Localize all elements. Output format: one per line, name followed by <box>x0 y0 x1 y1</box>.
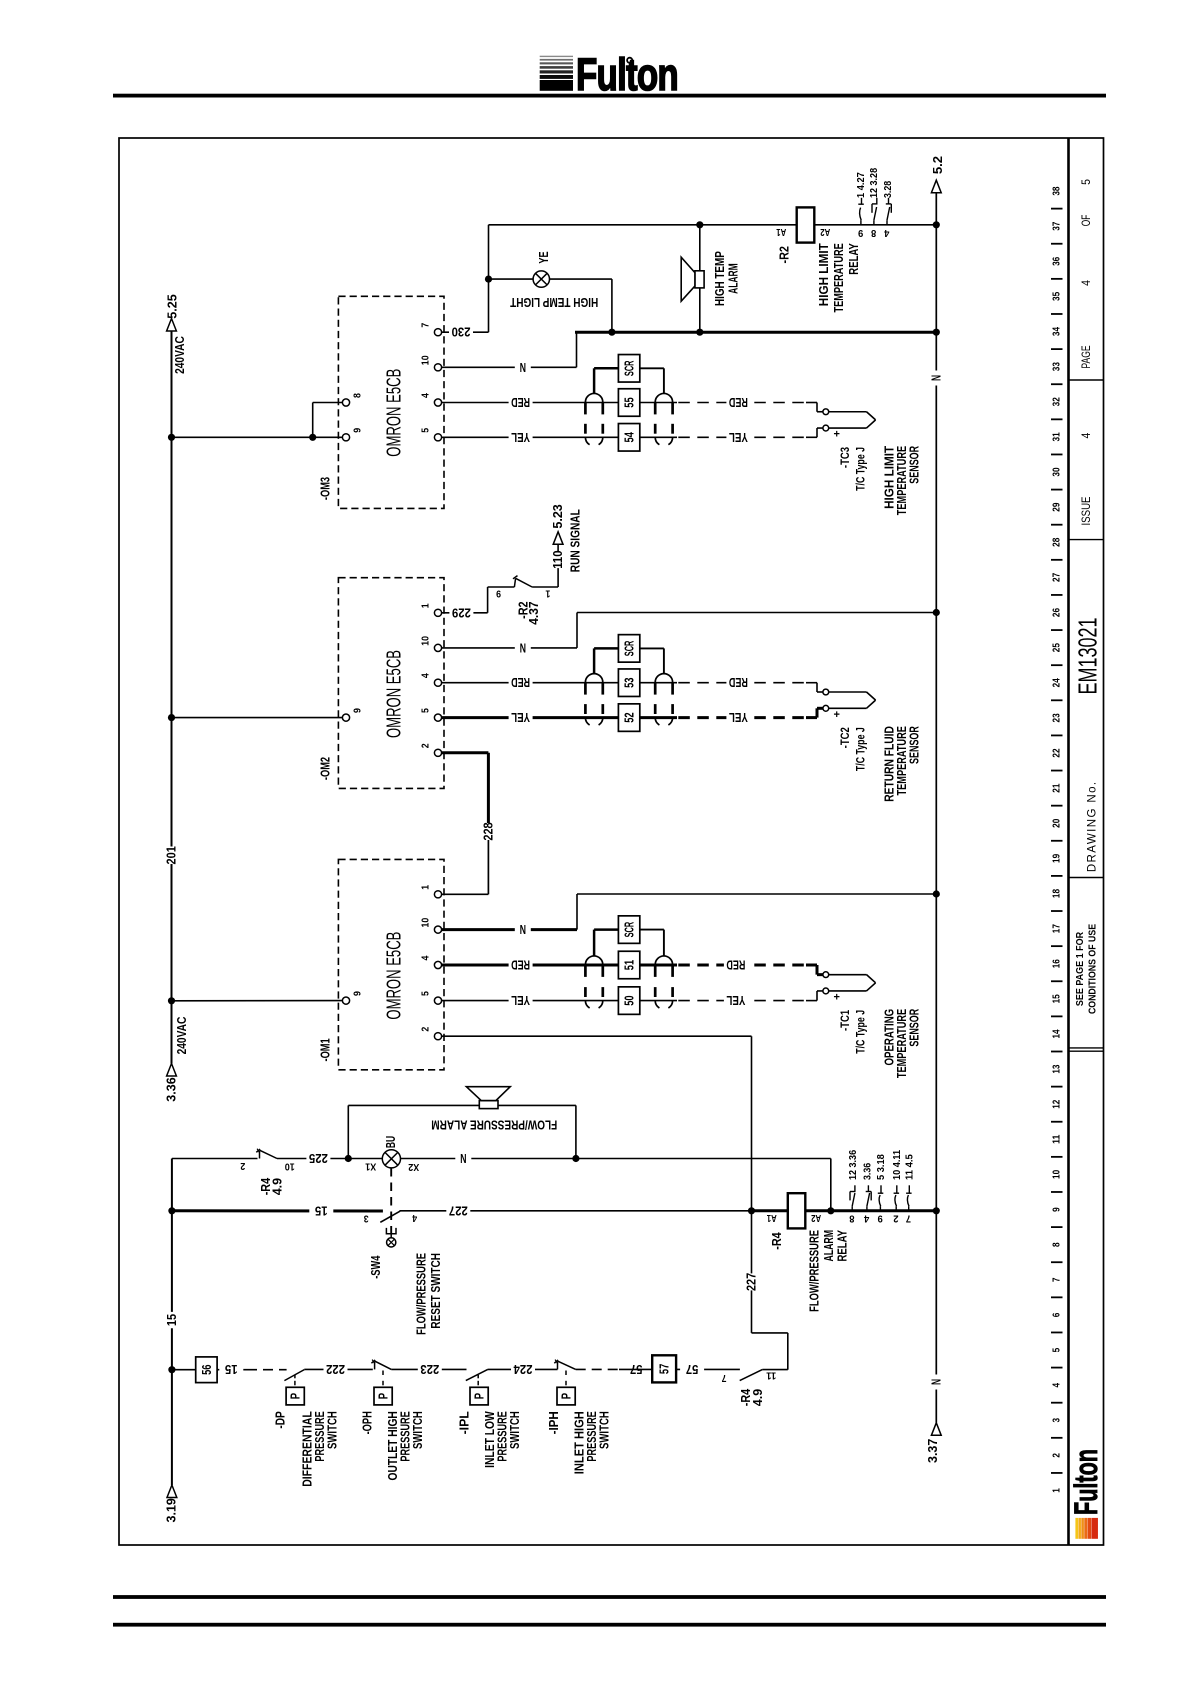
svg-text:OMRON E5CB: OMRON E5CB <box>384 369 406 457</box>
wire lamp to N run <box>550 279 612 332</box>
lamp BU flow alarm <box>348 1136 419 1172</box>
svg-text:YEL: YEL <box>511 993 530 1008</box>
svg-text:P: P <box>288 1393 303 1400</box>
svg-text:12 3.36: 12 3.36 <box>848 1150 859 1180</box>
svg-text:ISSUE: ISSUE <box>1079 497 1093 526</box>
svg-text:-TC1: -TC1 <box>840 1009 852 1031</box>
svg-text:X1: X1 <box>365 1160 376 1171</box>
svg-text:RED: RED <box>729 395 748 410</box>
svg-text:240VAC: 240VAC <box>172 336 187 374</box>
svg-text:EM13021: EM13021 <box>1073 618 1103 695</box>
run signal off-page arrow 110 5.23 <box>551 504 582 587</box>
svg-text:TEMPERATURE: TEMPERATURE <box>831 243 846 312</box>
svg-text:57: 57 <box>686 1362 699 1377</box>
inlet low pressure switch -IPL <box>457 1370 522 1468</box>
terminal 57 box <box>652 1355 676 1382</box>
wire OM2 pin10 N <box>442 609 940 656</box>
svg-text:SWITCH: SWITCH <box>507 1411 522 1449</box>
svg-text:1: 1 <box>421 603 432 608</box>
flow/pressure reset switch -SW4 <box>364 1168 443 1335</box>
svg-text:9: 9 <box>496 588 501 599</box>
right neutral bus N <box>929 180 943 1435</box>
OM3 cable screen left <box>585 393 602 444</box>
wire 227 down to chain <box>745 1211 788 1370</box>
svg-text:201: 201 <box>165 846 179 864</box>
svg-text:FLOW/PRESSURE ALARM: FLOW/PRESSURE ALARM <box>431 1117 557 1132</box>
svg-text:2: 2 <box>421 1027 432 1032</box>
wire 223 <box>391 1362 466 1377</box>
wire 228 OM2 pin2 to OM1 pin1 <box>442 753 496 895</box>
svg-text:4: 4 <box>421 673 432 678</box>
svg-text:SWITCH: SWITCH <box>596 1411 611 1449</box>
svg-text:8: 8 <box>871 227 877 238</box>
wire 224 <box>488 1362 558 1377</box>
svg-text:P: P <box>559 1393 574 1400</box>
flow pressure alarm sounder <box>431 1087 557 1133</box>
svg-text:18: 18 <box>1051 889 1062 898</box>
svg-text:Fulton: Fulton <box>1068 1449 1104 1515</box>
outlet high pressure switch -OPH <box>360 1360 425 1481</box>
svg-text:4.37: 4.37 <box>527 601 541 624</box>
svg-text:N: N <box>520 360 526 375</box>
off-page arrow 3.36 240VAC <box>164 1016 189 1101</box>
temperature controller -OM2 (OMRON E5CB) <box>319 578 444 789</box>
OM3 SCR screen terminal <box>594 355 664 394</box>
svg-text:37: 37 <box>1051 221 1062 230</box>
header rule <box>113 94 1106 98</box>
svg-text:3.28: 3.28 <box>883 180 894 198</box>
wire 222 <box>304 1362 373 1377</box>
temperature controller -OM1 (OMRON E5CB) <box>319 859 444 1069</box>
differential pressure switch -DP <box>273 1370 339 1487</box>
drawing frame border <box>119 138 1104 1545</box>
svg-text:12: 12 <box>1051 1099 1062 1108</box>
wire to relay contact -R4 2-10 <box>172 1158 258 1160</box>
svg-text:RED: RED <box>511 958 530 973</box>
svg-text:15: 15 <box>1051 994 1062 1003</box>
wire OM1 pin9 to bus <box>168 997 343 1004</box>
temperature controller -OM3 (OMRON E5CB) <box>319 296 444 508</box>
svg-text:5: 5 <box>1051 1348 1062 1353</box>
svg-text:RELAY: RELAY <box>835 1230 850 1262</box>
high temp alarm sounder <box>681 221 741 332</box>
svg-text:RUN SIGNAL: RUN SIGNAL <box>567 509 582 572</box>
wire 57 to contact <box>676 1362 740 1377</box>
thermocouple -TC3 connections <box>806 403 876 441</box>
svg-text:11 4.5: 11 4.5 <box>904 1154 915 1180</box>
svg-text:33: 33 <box>1051 362 1062 371</box>
svg-text:-IPH: -IPH <box>547 1411 561 1434</box>
title block PAGE cell <box>1079 179 1093 369</box>
svg-text:10: 10 <box>285 1161 295 1172</box>
wire 15 dashed to -DP <box>217 1362 287 1377</box>
svg-text:227: 227 <box>449 1203 468 1218</box>
OM2 terminal 52 <box>618 704 639 732</box>
svg-text:50: 50 <box>622 995 637 1005</box>
svg-text:RELAY: RELAY <box>846 243 861 275</box>
svg-text:8: 8 <box>849 1212 855 1223</box>
OM2 YEL conductor wire thick <box>442 710 806 725</box>
svg-text:N: N <box>520 640 526 655</box>
OM1 terminal 51 <box>618 951 639 979</box>
svg-text:8: 8 <box>1051 1242 1062 1247</box>
svg-text:10: 10 <box>421 917 432 927</box>
svg-text:CONDITIONS OF USE: CONDITIONS OF USE <box>1087 924 1098 1014</box>
svg-text:23: 23 <box>1051 713 1062 722</box>
svg-text:10: 10 <box>1051 1170 1062 1179</box>
OM1 cable screen right <box>655 956 672 1008</box>
relay -R4 label <box>806 1230 849 1312</box>
inlet high pressure switch -IPH <box>547 1360 612 1475</box>
OM1 cable screen left <box>585 956 602 1008</box>
svg-text:1 4.27: 1 4.27 <box>856 172 867 198</box>
svg-text:SENSOR: SENSOR <box>907 446 922 484</box>
svg-text:HIGH LIMIT: HIGH LIMIT <box>816 243 831 306</box>
svg-text:1: 1 <box>421 885 432 890</box>
thermocouple -TC1 labels <box>840 1008 922 1078</box>
terminal 56 <box>172 1357 217 1383</box>
svg-text:YEL: YEL <box>729 710 748 725</box>
svg-text:25: 25 <box>1051 643 1062 652</box>
svg-text:-TC3: -TC3 <box>840 447 852 468</box>
svg-text:-DP: -DP <box>273 1411 287 1428</box>
relay coil -R4 flow/pressure alarm <box>752 1193 940 1250</box>
OM1 SCR screen terminal <box>594 916 664 956</box>
svg-text:5: 5 <box>421 991 432 996</box>
svg-text:N: N <box>520 922 526 937</box>
svg-text:4.9: 4.9 <box>271 1178 285 1195</box>
svg-text:OMRON E5CB: OMRON E5CB <box>384 650 406 738</box>
svg-text:-OPH: -OPH <box>360 1411 374 1434</box>
svg-text:A2: A2 <box>811 1212 821 1223</box>
OM2 cable screen left <box>585 674 602 725</box>
svg-text:N: N <box>929 375 943 381</box>
title block conditions note <box>1075 924 1099 1014</box>
relay contact -R2 6-1 run signal <box>496 576 558 625</box>
relay -R4 contact cross references <box>848 1149 916 1223</box>
svg-text:2: 2 <box>240 1160 245 1171</box>
svg-text:57: 57 <box>657 1364 672 1374</box>
OM3 terminal 54 <box>618 424 639 452</box>
wire 230 from OM3 pin7 <box>442 225 489 340</box>
relay contact -R4 7-11 <box>721 1369 787 1406</box>
svg-text:N: N <box>460 1151 466 1166</box>
footer rules <box>113 1595 1106 1627</box>
svg-text:27: 27 <box>1051 573 1062 582</box>
svg-text:3.36: 3.36 <box>863 1162 874 1180</box>
OM3 RED conductor wire <box>442 395 806 410</box>
svg-text:17: 17 <box>1051 924 1062 933</box>
title block divider <box>1067 138 1070 1545</box>
svg-text:X2: X2 <box>408 1161 419 1172</box>
wire 227 reset switch to relay <box>400 1203 788 1218</box>
wire OM3 pin9 to bus <box>168 434 343 441</box>
svg-text:SWITCH: SWITCH <box>324 1411 339 1449</box>
svg-text:3.19: 3.19 <box>165 1498 179 1522</box>
svg-text:5 3.18: 5 3.18 <box>876 1154 887 1180</box>
svg-text:7: 7 <box>905 1212 911 1223</box>
svg-text:RESET SWITCH: RESET SWITCH <box>428 1253 443 1329</box>
relay -R2 contact cross references <box>856 168 894 238</box>
svg-text:4: 4 <box>421 393 432 398</box>
svg-text:35: 35 <box>1051 292 1062 301</box>
svg-text:222: 222 <box>326 1362 345 1377</box>
thermocouple -TC2 connections <box>806 683 876 721</box>
svg-text:51: 51 <box>622 960 637 970</box>
svg-text:-OM1: -OM1 <box>319 1038 333 1061</box>
svg-text:DRAWING No.: DRAWING No. <box>1086 781 1098 873</box>
svg-text:YEL: YEL <box>729 430 748 445</box>
svg-text:YEL: YEL <box>511 710 530 725</box>
svg-text:15: 15 <box>315 1204 328 1219</box>
svg-text:9: 9 <box>352 428 363 433</box>
off-page arrow 5.25 240VAC <box>165 294 187 374</box>
svg-text:9: 9 <box>1051 1207 1062 1212</box>
svg-text:4: 4 <box>884 227 890 238</box>
svg-text:FLOW/PRESSURE: FLOW/PRESSURE <box>414 1253 429 1335</box>
svg-text:T/C Type J: T/C Type J <box>855 1010 867 1054</box>
svg-text:13: 13 <box>1051 1064 1062 1073</box>
svg-text:22: 22 <box>1051 748 1062 757</box>
OM2 SCR screen terminal <box>594 635 664 674</box>
svg-text:OF: OF <box>1079 215 1093 227</box>
svg-text:110: 110 <box>551 550 565 568</box>
ruler scale 1-38 <box>1051 186 1063 1493</box>
svg-text:14: 14 <box>1051 1029 1062 1038</box>
svg-text:-OM2: -OM2 <box>319 757 333 780</box>
svg-text:5.2: 5.2 <box>931 156 945 174</box>
svg-text:YEL: YEL <box>511 430 530 445</box>
OM1 terminal 50 <box>618 987 639 1015</box>
svg-text:9: 9 <box>352 708 363 713</box>
svg-text:34: 34 <box>1051 327 1062 336</box>
lower supply bus wire 15 <box>165 1159 179 1523</box>
svg-text:-SW4: -SW4 <box>369 1256 383 1279</box>
svg-text:SWITCH: SWITCH <box>410 1411 425 1449</box>
svg-text:24: 24 <box>1051 678 1062 687</box>
svg-text:16: 16 <box>1051 959 1062 968</box>
svg-text:-R2: -R2 <box>777 246 791 263</box>
svg-text:7: 7 <box>1051 1277 1062 1282</box>
svg-text:ALARM: ALARM <box>726 263 741 294</box>
svg-text:A1: A1 <box>767 1212 777 1223</box>
OM1 RED conductor wire thick <box>442 958 806 973</box>
svg-text:8: 8 <box>352 393 363 398</box>
svg-text:7: 7 <box>721 1372 726 1383</box>
svg-text:4.9: 4.9 <box>751 1389 765 1406</box>
svg-text:T/C Type J: T/C Type J <box>855 447 867 491</box>
wire OM2 pin9 to bus <box>168 714 343 721</box>
wire lamp to N corner <box>401 1151 831 1211</box>
svg-text:9: 9 <box>858 227 864 238</box>
svg-text:10: 10 <box>421 636 432 646</box>
title block cell lines <box>1069 380 1104 1051</box>
svg-text:4: 4 <box>1079 280 1093 286</box>
svg-text:53: 53 <box>622 678 637 688</box>
svg-text:5: 5 <box>1079 179 1093 185</box>
svg-text:19: 19 <box>1051 854 1062 863</box>
svg-text:T/C Type J: T/C Type J <box>855 727 867 771</box>
svg-text:9: 9 <box>877 1212 883 1223</box>
left 240VAC supply bus (wire 201) <box>165 319 179 1077</box>
svg-text:10 4.11: 10 4.11 <box>892 1149 903 1180</box>
svg-text:-R4: -R4 <box>770 1232 784 1249</box>
svg-text:32: 32 <box>1051 397 1062 406</box>
svg-text:YE: YE <box>537 251 551 263</box>
svg-text:P: P <box>376 1393 391 1400</box>
thick N run wire <box>575 329 940 336</box>
thermocouple -TC3 labels <box>840 446 922 516</box>
svg-text:2: 2 <box>1051 1453 1062 1458</box>
svg-text:36: 36 <box>1051 256 1062 265</box>
svg-text:3.37: 3.37 <box>926 1439 940 1463</box>
svg-text:SENSOR: SENSOR <box>907 1008 922 1046</box>
thermocouple -TC2 labels <box>840 726 922 802</box>
OM3 YEL conductor wire <box>442 430 806 445</box>
svg-text:-OM3: -OM3 <box>319 477 333 500</box>
svg-text:2: 2 <box>893 1212 899 1223</box>
title block Fulton logo <box>1068 1449 1104 1539</box>
svg-text:1: 1 <box>545 588 550 599</box>
svg-text:5: 5 <box>421 708 432 713</box>
svg-text:SEE PAGE 1 FOR: SEE PAGE 1 FOR <box>1075 931 1086 1006</box>
svg-text:YEL: YEL <box>726 993 745 1008</box>
OM2 RED conductor wire <box>442 675 806 690</box>
svg-text:26: 26 <box>1051 608 1062 617</box>
wire 229 from OM2 pin1 <box>442 587 515 620</box>
svg-text:RED: RED <box>511 675 530 690</box>
svg-text:2: 2 <box>421 743 432 748</box>
svg-text:30: 30 <box>1051 467 1062 476</box>
thermocouple -TC1 connections <box>806 965 876 1004</box>
svg-text:3.36: 3.36 <box>164 1077 178 1101</box>
svg-text:4: 4 <box>864 1212 870 1223</box>
wire high temp light feed <box>485 225 700 283</box>
wire 225 to lamp <box>277 1151 352 1166</box>
svg-text:52: 52 <box>622 712 637 722</box>
svg-text:224: 224 <box>513 1362 532 1377</box>
title block DRAWING No. cell <box>1073 618 1103 873</box>
svg-text:4: 4 <box>1051 1383 1062 1388</box>
svg-text:15: 15 <box>165 1314 179 1326</box>
svg-text:Fulton: Fulton <box>576 49 678 100</box>
svg-text:4: 4 <box>1079 432 1093 438</box>
svg-text:+: + <box>833 429 839 441</box>
flow pressure alarm branch <box>348 1105 479 1158</box>
svg-text:223: 223 <box>420 1362 439 1377</box>
alarm return wire <box>498 1105 580 1162</box>
svg-text:3: 3 <box>1051 1418 1062 1423</box>
title block ISSUE cell <box>1079 432 1093 525</box>
svg-text:P: P <box>472 1393 487 1400</box>
svg-text:11: 11 <box>766 1369 776 1380</box>
svg-text:240VAC: 240VAC <box>174 1016 189 1054</box>
thick wire 15 to reset switch <box>172 1204 383 1219</box>
svg-text:225: 225 <box>309 1151 328 1166</box>
svg-text:SCR: SCR <box>622 360 637 376</box>
svg-text:RED: RED <box>726 958 745 973</box>
svg-text:31: 31 <box>1051 432 1062 441</box>
svg-text:9: 9 <box>352 991 363 996</box>
svg-text:A2: A2 <box>820 226 830 237</box>
svg-text:+: + <box>833 992 839 1004</box>
svg-text:SCR: SCR <box>622 640 637 656</box>
svg-text:230: 230 <box>452 325 471 340</box>
svg-text:HIGH TEMP LIGHT: HIGH TEMP LIGHT <box>510 295 598 310</box>
high temp light lamp YE <box>510 251 598 310</box>
OM3 cable screen right <box>655 393 672 444</box>
svg-text:BU: BU <box>384 1136 398 1148</box>
svg-text:228: 228 <box>481 822 495 840</box>
svg-text:OMRON E5CB: OMRON E5CB <box>384 932 406 1020</box>
svg-text:28: 28 <box>1051 537 1062 546</box>
OM1 YEL conductor wire <box>442 993 806 1008</box>
svg-text:-IPL: -IPL <box>457 1411 471 1435</box>
svg-text:227: 227 <box>745 1273 759 1291</box>
svg-text:54: 54 <box>622 432 637 443</box>
svg-text:5.25: 5.25 <box>165 294 179 318</box>
svg-text:229: 229 <box>452 605 471 620</box>
OM2 cable screen right <box>655 674 672 725</box>
svg-text:+: + <box>833 709 839 721</box>
svg-text:FLOW/PRESSURE: FLOW/PRESSURE <box>806 1230 821 1312</box>
svg-text:RED: RED <box>511 395 530 410</box>
svg-text:PAGE: PAGE <box>1079 345 1093 368</box>
svg-text:12 3.28: 12 3.28 <box>869 168 880 198</box>
svg-text:4: 4 <box>412 1212 417 1223</box>
OM3 terminal 55 <box>618 389 639 417</box>
relay -R2 label <box>816 243 861 312</box>
svg-text:56: 56 <box>199 1365 214 1375</box>
svg-text:-TC2: -TC2 <box>840 727 852 748</box>
svg-text:5: 5 <box>421 428 432 433</box>
dashed wire to terminal 57 <box>576 1362 653 1377</box>
svg-text:20: 20 <box>1051 818 1062 827</box>
OM2 terminal 53 <box>618 669 639 697</box>
svg-text:N: N <box>929 1379 943 1385</box>
svg-text:RED: RED <box>729 675 748 690</box>
Fulton header logo <box>540 49 678 100</box>
svg-text:7: 7 <box>421 323 432 328</box>
wire OM1 pin2 to flow relay line <box>442 1036 752 1211</box>
off-page arrow 5.2 <box>931 156 945 174</box>
svg-text:5.23: 5.23 <box>551 504 565 528</box>
svg-text:SENSOR: SENSOR <box>907 726 922 764</box>
relay coil -R2 high limit <box>700 207 937 263</box>
svg-text:10: 10 <box>421 355 432 365</box>
wire OM3 pin8 branch <box>313 403 343 438</box>
svg-text:11: 11 <box>1051 1134 1062 1143</box>
svg-text:A1: A1 <box>776 226 786 237</box>
svg-text:1: 1 <box>1051 1488 1062 1493</box>
svg-text:21: 21 <box>1051 783 1062 792</box>
relay contact -R4 2-10 <box>240 1149 295 1196</box>
svg-text:4: 4 <box>421 955 432 960</box>
wire OM1 pin10 N thick <box>442 890 940 937</box>
svg-text:55: 55 <box>622 397 637 407</box>
svg-text:6: 6 <box>1051 1312 1062 1317</box>
svg-text:38: 38 <box>1051 186 1062 195</box>
off-page arrow 3.37 <box>926 1439 940 1463</box>
svg-text:3: 3 <box>364 1213 369 1224</box>
wire OM3 pin10 N <box>442 332 577 375</box>
svg-text:SCR: SCR <box>622 921 637 937</box>
svg-text:29: 29 <box>1051 502 1062 511</box>
svg-text:15: 15 <box>225 1362 238 1377</box>
